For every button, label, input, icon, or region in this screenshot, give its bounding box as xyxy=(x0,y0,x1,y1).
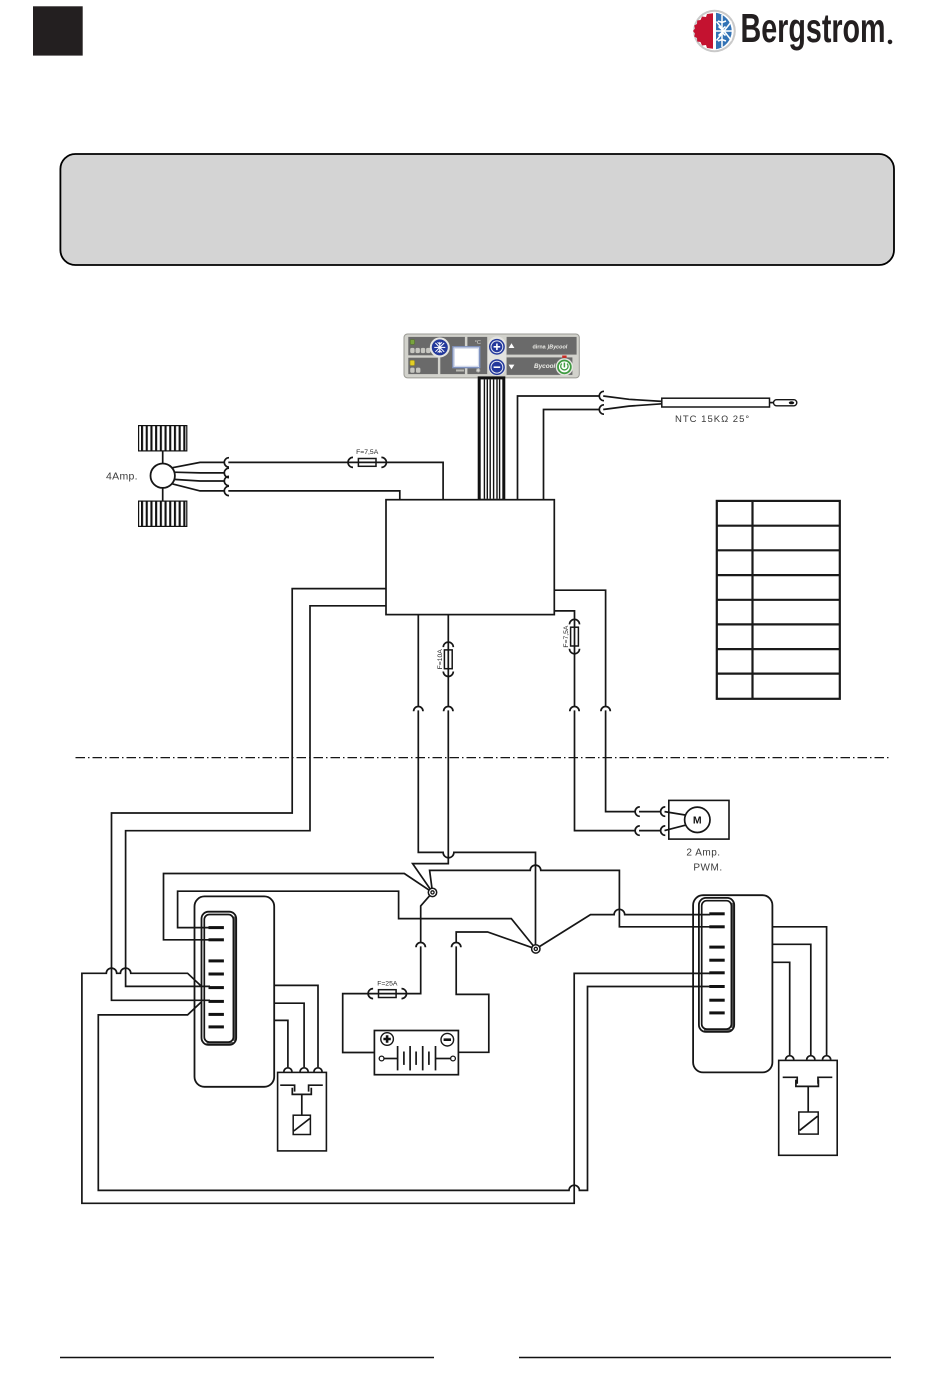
svg-text:2 Amp.: 2 Amp. xyxy=(686,847,720,858)
wire left block to relay pin2 xyxy=(274,1003,304,1067)
wire ECU left pin2 to left block bar5 xyxy=(126,606,386,987)
wire left block to relay pin3 xyxy=(274,985,318,1067)
svg-text:F=25A: F=25A xyxy=(377,980,398,987)
svg-text:✺: ✺ xyxy=(476,367,481,374)
wire xyxy=(639,811,660,813)
fan stripe grille top xyxy=(139,426,187,451)
svg-text:)Bycool: )Bycool xyxy=(547,344,568,350)
footer rule left xyxy=(60,1357,434,1359)
svg-text:dirna: dirna xyxy=(533,344,547,350)
wire right block to relay pin2 xyxy=(772,944,810,1055)
fuse F-10A xyxy=(443,642,453,647)
connector xyxy=(224,476,229,485)
footer rule right xyxy=(519,1357,891,1359)
svg-text:F=7,5A: F=7,5A xyxy=(356,449,379,456)
svg-text:4Amp.: 4Amp. xyxy=(106,471,138,483)
wire ECU right pin2 to PWM motor (fused) xyxy=(554,611,574,707)
wire xyxy=(343,946,421,1052)
wire NTC lead 2 xyxy=(544,410,600,500)
left connector block xyxy=(195,896,275,1086)
right relay xyxy=(779,1060,838,1155)
battery xyxy=(374,1031,458,1075)
connector xyxy=(786,1056,794,1060)
wire ECU left pin1 to left block bar6 xyxy=(112,589,387,1001)
wire node A to right block bar2 (hops node B drop) xyxy=(430,865,710,927)
fuse F-25A xyxy=(368,989,373,999)
electronic control unit xyxy=(386,500,554,615)
dash-dot centre line xyxy=(76,757,891,759)
fuse F-7,5A vertical xyxy=(570,619,580,624)
grey title box xyxy=(60,154,894,265)
wire to node A xyxy=(413,710,449,892)
wire right block to relay pin1 xyxy=(772,962,789,1055)
wire NTC lead 1 xyxy=(518,396,600,500)
svg-text:NTC 15KΩ 25°: NTC 15KΩ 25° xyxy=(675,414,750,425)
wire to node B (hop over F10A wire) xyxy=(418,710,535,944)
left relay xyxy=(278,1072,327,1151)
connector xyxy=(599,391,604,400)
wire fan to control unit (fused) xyxy=(228,462,443,499)
fan lead 1 xyxy=(173,462,225,467)
fuse F-7,5A xyxy=(348,457,353,467)
wire left block to relay pin1 xyxy=(274,1020,288,1067)
legend table xyxy=(717,501,840,699)
ribbon cable from panel to control unit xyxy=(479,378,504,500)
connector xyxy=(452,943,461,948)
connector xyxy=(635,826,640,835)
Bergstrom logo emblem xyxy=(693,10,736,53)
connector xyxy=(661,826,666,835)
connector xyxy=(416,943,425,948)
connector xyxy=(224,458,229,467)
blower motor 4Amp xyxy=(151,451,175,501)
connector xyxy=(661,807,666,816)
wire loop right block bar5 to left block bar6 xyxy=(98,987,710,1191)
PWM motor M 2Amp xyxy=(665,800,730,839)
wire fan to control unit xyxy=(228,491,399,500)
connector xyxy=(314,1068,322,1072)
svg-text:Bycool: Bycool xyxy=(534,363,556,370)
svg-text:Bergstrom: Bergstrom xyxy=(741,6,886,51)
connector xyxy=(601,707,610,712)
connector xyxy=(224,468,229,477)
wire ECU bottom pin1 (upper) xyxy=(417,615,419,707)
wire xyxy=(639,830,660,832)
fan stripe grille bottom xyxy=(139,501,187,526)
connector xyxy=(635,807,640,816)
connector xyxy=(444,707,453,712)
node B xyxy=(532,945,540,953)
svg-text:°C: °C xyxy=(475,340,481,346)
wire node B to left block bar1 xyxy=(178,891,536,949)
right connector block xyxy=(693,895,772,1072)
connector xyxy=(414,707,423,712)
svg-text:M: M xyxy=(693,815,702,827)
wire node B to battery - xyxy=(456,932,536,949)
wire node B to right block bar1 (hop) xyxy=(536,909,710,949)
svg-text:PWM.: PWM. xyxy=(693,863,722,874)
climate control panel xyxy=(404,334,579,378)
node A xyxy=(428,888,436,896)
wire loop right block bar4 to left block bar5 xyxy=(82,968,710,1203)
fan lead 4 xyxy=(173,484,225,491)
wire ECU bottom pin2 (fused) xyxy=(447,615,449,707)
connector xyxy=(300,1068,308,1072)
wire node A to left block bar2 xyxy=(164,874,433,940)
connector xyxy=(599,405,604,414)
wire ECU right pin1 to PWM motor xyxy=(554,590,605,706)
NTC sensor probe xyxy=(603,396,797,410)
connector xyxy=(284,1068,292,1072)
wire node A to battery + via fuse xyxy=(421,892,433,942)
fan lead 2 xyxy=(174,471,224,474)
black corner square xyxy=(33,6,83,55)
wire xyxy=(456,946,489,1052)
svg-text:F=7,5A: F=7,5A xyxy=(563,625,570,648)
fan lead 3 xyxy=(174,479,224,481)
connector xyxy=(224,486,229,495)
connector xyxy=(823,1056,831,1060)
connector xyxy=(570,707,579,712)
connector xyxy=(807,1056,815,1060)
svg-text:F=10A: F=10A xyxy=(437,649,444,670)
wire right block to relay pin3 xyxy=(772,927,826,1055)
